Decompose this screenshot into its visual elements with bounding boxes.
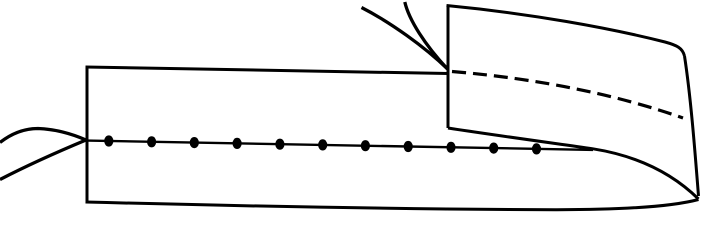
stitch dot 6	[318, 139, 327, 150]
lower fabric panel left edge	[86, 66, 89, 203]
left thread tail lower	[0, 140, 86, 180]
dashed fold stitching line	[452, 72, 683, 119]
stitch dot 3	[190, 137, 199, 148]
top thread tail left	[362, 8, 448, 70]
left thread tail upper	[0, 129, 86, 143]
lower fabric panel top edge	[86, 67, 449, 74]
running stitch thread line	[87, 141, 593, 150]
stitch dot 4	[233, 138, 242, 149]
stitch dot 7	[361, 140, 370, 151]
folded flap left crease edge	[447, 5, 450, 128]
stitch dot 2	[147, 136, 156, 147]
stitch dot 5	[275, 139, 284, 150]
stitch dot 8	[404, 141, 413, 152]
fold roll curve to bottom tip	[448, 128, 699, 199]
stitch dot 10	[489, 143, 498, 154]
top thread tail right	[405, 2, 448, 69]
stitch dot 9	[446, 142, 455, 153]
stitch dot 11	[532, 143, 541, 154]
lower fabric panel bottom edge	[86, 200, 699, 210]
folded flap top edge	[447, 6, 685, 57]
folded flap right edge	[685, 56, 699, 196]
stitch dot 1	[104, 135, 113, 146]
